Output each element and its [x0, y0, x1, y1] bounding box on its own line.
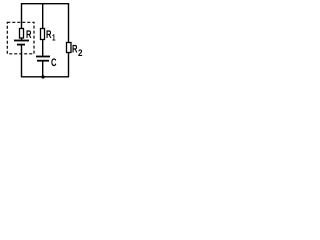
wire right branch lower [68, 53, 70, 78]
capacitor C top plate [36, 56, 50, 58]
wire left branch lower [21, 46, 23, 78]
capacitor C bottom plate [37, 60, 49, 62]
svg-text:2: 2 [78, 48, 83, 59]
resistor R1 [41, 29, 45, 40]
dashed box (source outline) [7, 22, 34, 54]
svg-text:1: 1 [52, 33, 56, 43]
wire top rail [21, 3, 69, 5]
resistor R2 [67, 43, 72, 53]
wire between R and battery [21, 38, 23, 40]
svg-text:C: C [51, 57, 57, 69]
wire bottom rail [21, 76, 69, 78]
wire middle branch lower [42, 62, 44, 78]
junction node [41, 75, 44, 78]
battery cell: short plate [17, 44, 25, 46]
wire middle branch upper [42, 3, 44, 29]
wire right branch upper [68, 3, 70, 43]
battery cell: long plate [14, 40, 29, 42]
svg-text:R: R [46, 29, 52, 41]
wire left branch upper [21, 3, 23, 29]
svg-text:R: R [72, 44, 78, 56]
svg-text:R: R [26, 29, 32, 41]
resistor R [20, 29, 24, 39]
wire between R1 and C [42, 40, 44, 57]
